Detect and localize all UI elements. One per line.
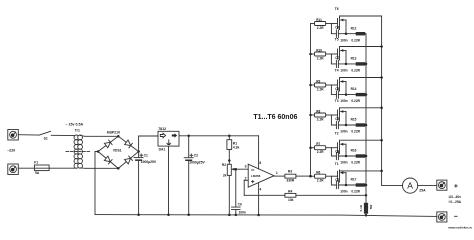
svg-text:2.2R: 2.2R — [317, 179, 324, 183]
svg-text:R13: R13 — [351, 57, 357, 61]
svg-text:Tr1: Tr1 — [75, 129, 80, 133]
node ground junctions — [137, 213, 140, 216]
svg-text:4: 4 — [259, 188, 261, 192]
wire DA1 ground to rail — [168, 146, 170, 215]
svg-text:R4: R4 — [288, 190, 292, 194]
node source T5 — [345, 63, 348, 66]
svg-text:R10: R10 — [316, 48, 322, 52]
svg-text:I 0...25A: I 0...25A — [449, 200, 462, 204]
svg-text:R8: R8 — [316, 109, 320, 113]
svg-text:7812: 7812 — [158, 127, 166, 131]
svg-text:C3: C3 — [335, 178, 339, 182]
svg-text:T3: T3 — [335, 99, 339, 103]
svg-text:R12: R12 — [351, 26, 357, 30]
inverting input mark — [252, 169, 254, 171]
svg-text:10k: 10k — [288, 198, 294, 202]
resistor R10 2.2R — [311, 53, 315, 55]
wire pin 8 supply — [258, 136, 260, 169]
svg-text:R9: R9 — [316, 79, 320, 83]
svg-text:2.2R: 2.2R — [317, 87, 324, 91]
resistor R15 0.22R — [356, 123, 366, 126]
svg-text:S1: S1 — [44, 136, 48, 140]
capacitor C6 100n — [331, 85, 336, 95]
svg-text:R2: R2 — [222, 163, 226, 167]
svg-text:U3...40v: U3...40v — [449, 195, 462, 199]
svg-text:2.2R: 2.2R — [317, 117, 324, 121]
terminal output minus — [437, 212, 447, 222]
potentiometer R2 — [227, 164, 231, 175]
svg-text:T5: T5 — [335, 38, 339, 42]
svg-text:R15: R15 — [351, 118, 357, 122]
svg-text:R17: R17 — [351, 178, 357, 182]
svg-text:0.22R: 0.22R — [351, 161, 360, 165]
node drain rail T1 — [380, 170, 383, 173]
svg-text:3: 3 — [245, 165, 247, 169]
svg-text:C7: C7 — [335, 56, 339, 60]
svg-text:R14: R14 — [351, 87, 357, 91]
label minus — [455, 215, 458, 217]
wire XS2 to F1 to Tr1 primary bottom — [18, 167, 76, 169]
svg-text:100n: 100n — [340, 130, 347, 134]
transformer Tr1 core — [66, 151, 91, 153]
svg-text:100n: 100n — [340, 38, 347, 42]
svg-text:25A: 25A — [419, 189, 426, 193]
svg-text:C2: C2 — [194, 154, 198, 158]
capacitor C3 100n — [331, 176, 336, 185]
wire R2 wiper to op-amp pin 3 — [232, 168, 248, 170]
svg-text:4.3k: 4.3k — [233, 145, 240, 149]
svg-text:C1: C1 — [144, 154, 148, 158]
ground symbol inside DA1 — [167, 140, 171, 145]
terminal XS2 ~220 input bottom — [8, 164, 18, 175]
svg-text:1000µ25V: 1000µ25V — [189, 161, 205, 165]
wire XS1 to S1 — [18, 134, 39, 136]
svg-text:T1...T6 60n06: T1...T6 60n06 — [253, 114, 297, 121]
wire S1 to Tr1 primary top — [51, 134, 76, 136]
node gate rail T4 — [309, 84, 312, 87]
node gate rail T1 — [309, 175, 312, 178]
svg-text:R11: R11 — [316, 18, 322, 22]
diode bridge upper-right — [125, 140, 133, 148]
node R1-R2 — [228, 159, 231, 162]
resistor R7 2.2R — [311, 147, 315, 149]
node drain rail T4 — [380, 76, 383, 79]
svg-text:C6: C6 — [335, 87, 339, 91]
svg-text:C5: C5 — [335, 117, 339, 121]
svg-text:2.2R: 2.2R — [317, 26, 324, 30]
capacitor C8 100n — [331, 24, 336, 34]
svg-text:KBP210: KBP210 — [107, 130, 120, 134]
capacitor C2 1000u 25V — [187, 135, 190, 138]
node drain rail T2 — [380, 139, 383, 142]
transformer Tr1 primary winding — [74, 135, 79, 140]
svg-text:100n: 100n — [340, 99, 347, 103]
terminal XS1 ~220 input top — [8, 130, 18, 141]
wire pin 2 — [244, 179, 248, 181]
svg-text:8: 8 — [259, 161, 261, 165]
svg-text:1: 1 — [276, 171, 278, 175]
svg-text:100n: 100n — [340, 190, 347, 194]
diode bridge lower-left — [104, 156, 112, 164]
resistor R13 0.22R — [356, 62, 366, 65]
node gate rail T2 — [309, 146, 312, 149]
resistor R12 0.22R — [356, 32, 366, 35]
node sense rail R16 — [365, 155, 368, 158]
terminal output plus — [437, 180, 447, 190]
svg-text:~220: ~220 — [7, 148, 15, 152]
non-inverting input mark — [252, 181, 254, 183]
svg-text:LM358: LM358 — [251, 174, 261, 178]
resistor R16 0.22R — [356, 154, 366, 157]
svg-text:1000µ25V: 1000µ25V — [141, 160, 157, 164]
svg-text:R6: R6 — [316, 171, 320, 175]
node gate rail T5 — [309, 53, 312, 56]
regulator DA1 7812 — [158, 131, 179, 146]
resistor R11 2.2R — [311, 23, 315, 25]
wire feedback to R4 — [244, 194, 285, 196]
svg-text:0.22R: 0.22R — [351, 69, 360, 73]
wire pin 4 to ground — [258, 183, 260, 215]
svg-text:T6: T6 — [335, 7, 339, 11]
node drain rail T3 — [380, 107, 383, 110]
svg-text:330R: 330R — [286, 179, 295, 183]
node source T2 — [345, 155, 348, 158]
svg-text:2k: 2k — [223, 173, 227, 177]
ammeter PA1 25A — [403, 178, 418, 193]
diode bridge lower-right — [125, 156, 133, 164]
wire R4 to shunt node — [296, 194, 366, 196]
svg-text:100n: 100n — [239, 211, 246, 215]
svg-text:www.radiokot.ru: www.radiokot.ru — [447, 226, 472, 230]
resistor R1 4.3k — [228, 135, 231, 138]
svg-text:~ 15v 0.5A: ~ 15v 0.5A — [65, 122, 83, 126]
svg-text:VDS1: VDS1 — [113, 148, 122, 152]
node gate rail T3 — [309, 114, 312, 117]
switch S1 — [39, 131, 50, 135]
svg-text:2.2R: 2.2R — [317, 150, 324, 154]
resistor R14 0.22R — [356, 93, 366, 96]
node source T6 — [345, 32, 348, 35]
svg-text:A: A — [407, 181, 413, 191]
svg-text:0.22R: 0.22R — [351, 38, 360, 42]
svg-text:C8: C8 — [335, 26, 339, 30]
svg-text:C9: C9 — [238, 203, 242, 207]
label plus — [455, 185, 458, 188]
svg-text:T4: T4 — [335, 69, 339, 73]
wire bridge plus rail — [139, 136, 158, 152]
svg-text:R16: R16 — [351, 149, 357, 153]
wire R3 to gate rail — [296, 175, 311, 177]
node sense rail R14 — [365, 93, 368, 96]
svg-text:R3: R3 — [288, 169, 292, 173]
svg-text:F1: F1 — [34, 160, 38, 164]
wire bridge minus to ground rail — [95, 152, 98, 215]
wire ammeter to plus terminal — [418, 185, 437, 187]
svg-text:R7: R7 — [316, 142, 320, 146]
svg-text:0.22R: 0.22R — [351, 130, 360, 134]
transformer Tr1 secondary winding — [78, 135, 83, 140]
svg-text:2.2R: 2.2R — [317, 56, 324, 60]
resistor R6 2.2R — [311, 175, 315, 177]
node sense rail R13 — [365, 63, 368, 66]
fuse F1 5A — [34, 165, 49, 171]
svg-text:5W: 5W — [369, 205, 373, 210]
capacitor C5 100n — [331, 115, 336, 125]
node source T4 — [345, 93, 348, 96]
svg-text:5A: 5A — [35, 171, 40, 175]
op-amp U1 LM358 — [248, 164, 274, 187]
node sense rail R17 — [365, 184, 368, 187]
wire feedback pin2 down — [243, 180, 245, 195]
node sense rail R15 — [365, 124, 368, 127]
svg-text:100n: 100n — [340, 69, 347, 73]
svg-text:0.22R: 0.22R — [351, 190, 360, 194]
resistor R4 10k feedback — [285, 193, 296, 197]
wire Tr1 secondary bottom to bridge — [80, 167, 118, 169]
wire R2 bottom to ground — [228, 175, 230, 215]
resistor R3 330R — [285, 174, 296, 178]
wire ground rail — [95, 215, 437, 217]
wire op-amp output — [274, 175, 285, 177]
svg-text:DA1: DA1 — [159, 148, 166, 152]
svg-text:0.1R: 0.1R — [359, 204, 363, 211]
wire source sense rail — [365, 34, 367, 196]
svg-text:T2: T2 — [335, 131, 339, 135]
svg-text:0.22R: 0.22R — [351, 99, 360, 103]
wire Tr1 secondary top to bridge — [80, 134, 118, 137]
capacitor C9 100n — [235, 169, 237, 207]
resistor R8 2.2R — [311, 114, 315, 116]
capacitor C7 100n — [331, 54, 336, 64]
wire +12V rail — [179, 135, 259, 137]
wire gate drive rail — [310, 24, 312, 177]
svg-text:T1: T1 — [335, 162, 339, 166]
diode bridge upper-left — [104, 140, 112, 148]
bridge rectifier VDS1 KBP210 diamond — [98, 136, 139, 168]
resistor R9 2.2R — [311, 84, 315, 86]
resistor R17 0.22R — [356, 183, 366, 186]
node source T3 — [345, 124, 348, 127]
capacitor C1 1000u 25V — [138, 152, 140, 158]
wire drain rail to ammeter — [382, 16, 403, 186]
svg-text:100n: 100n — [340, 161, 347, 165]
node bridge corners — [97, 150, 100, 153]
node source T1 — [345, 184, 348, 187]
capacitor C4 100n — [331, 148, 336, 156]
resistor R18 shunt 0.1R 5W — [365, 195, 367, 203]
svg-text:C4: C4 — [335, 150, 339, 154]
node drain rail T5 — [380, 45, 383, 48]
